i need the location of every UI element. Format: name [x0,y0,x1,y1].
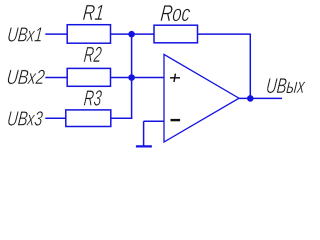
wire R1 to node A and Roc [111,33,155,35]
svg-text:UВх3: UВх3 [6,107,44,130]
op-amp U1 triangle [164,54,239,142]
svg-text:R3: R3 [83,86,104,111]
resistor R1 [67,25,110,44]
node junction dot (R2 row) [128,74,135,81]
resistor Roc [154,25,198,43]
op-amp minus input sign [171,119,181,121]
wire ground stem vertical [143,121,145,146]
op-amp plus input sign [170,77,180,79]
wire input1 to R1 [45,33,67,35]
wire op-amp output [239,97,282,99]
ground [136,145,152,147]
wire summing node vertical line [131,34,133,120]
svg-text:UВых: UВых [265,73,307,98]
svg-text:Rос: Rос [159,0,192,26]
svg-text:UВх1: UВх1 [6,24,44,47]
resistor R2 [67,68,110,86]
wire Roc to feedback corner [198,33,251,35]
resistor R3 [66,110,111,127]
svg-text:R1: R1 [82,0,106,25]
svg-text:UВх2: UВх2 [6,66,47,89]
wire R3 to summing vertical line [111,117,132,119]
wire inverting input to ground stem [144,120,164,122]
svg-text:R2: R2 [83,42,103,67]
wire feedback vertical down to output node [249,34,251,99]
wire input2 to R2 [45,77,67,79]
node A junction dot (R1 row) [128,31,135,38]
wire R2 to op-amp noninverting input [111,77,165,79]
wire input3 to R3 [45,117,66,119]
output node junction dot [247,95,254,102]
